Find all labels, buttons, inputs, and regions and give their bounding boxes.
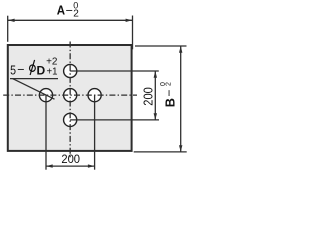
plate outline — [8, 45, 132, 151]
hole right — [88, 89, 101, 102]
dimension B extension top — [135, 45, 187, 47]
leader diagonal to left hole — [13, 79, 55, 100]
dimension 200 bottom line — [46, 165, 95, 167]
center line horizontal — [3, 94, 137, 96]
dimension A extension right — [132, 16, 134, 50]
svg-text:+1: +1 — [47, 66, 58, 77]
dimension B extension bottom — [134, 151, 187, 153]
svg-text:D: D — [37, 64, 46, 78]
extension line from bottom hole to right — [70, 119, 159, 121]
phi symbol — [30, 65, 36, 71]
dimension 200 vertical line — [154, 71, 156, 120]
extension line from left hole down — [45, 95, 47, 170]
extension line from top hole to right — [70, 70, 159, 72]
dimension A line — [8, 19, 132, 21]
svg-text:200: 200 — [141, 87, 156, 106]
svg-text:−: − — [162, 90, 176, 97]
center line vertical — [69, 42, 71, 160]
svg-text:A: A — [57, 4, 65, 18]
dimension B line — [180, 46, 182, 152]
hole left — [39, 89, 52, 102]
svg-text:2: 2 — [73, 9, 79, 20]
svg-text:5: 5 — [10, 62, 16, 77]
hole bottom — [64, 113, 77, 126]
svg-text:−: − — [66, 4, 73, 18]
extension line from right hole down — [94, 95, 96, 170]
svg-text:−: − — [17, 63, 24, 77]
dimension A extension left — [7, 16, 9, 42]
leader underline for hole callout — [10, 78, 58, 80]
svg-text:200: 200 — [61, 152, 80, 166]
svg-text:2: 2 — [166, 82, 173, 86]
svg-text:B: B — [163, 98, 177, 107]
hole top — [64, 64, 77, 77]
hole center — [64, 89, 77, 102]
